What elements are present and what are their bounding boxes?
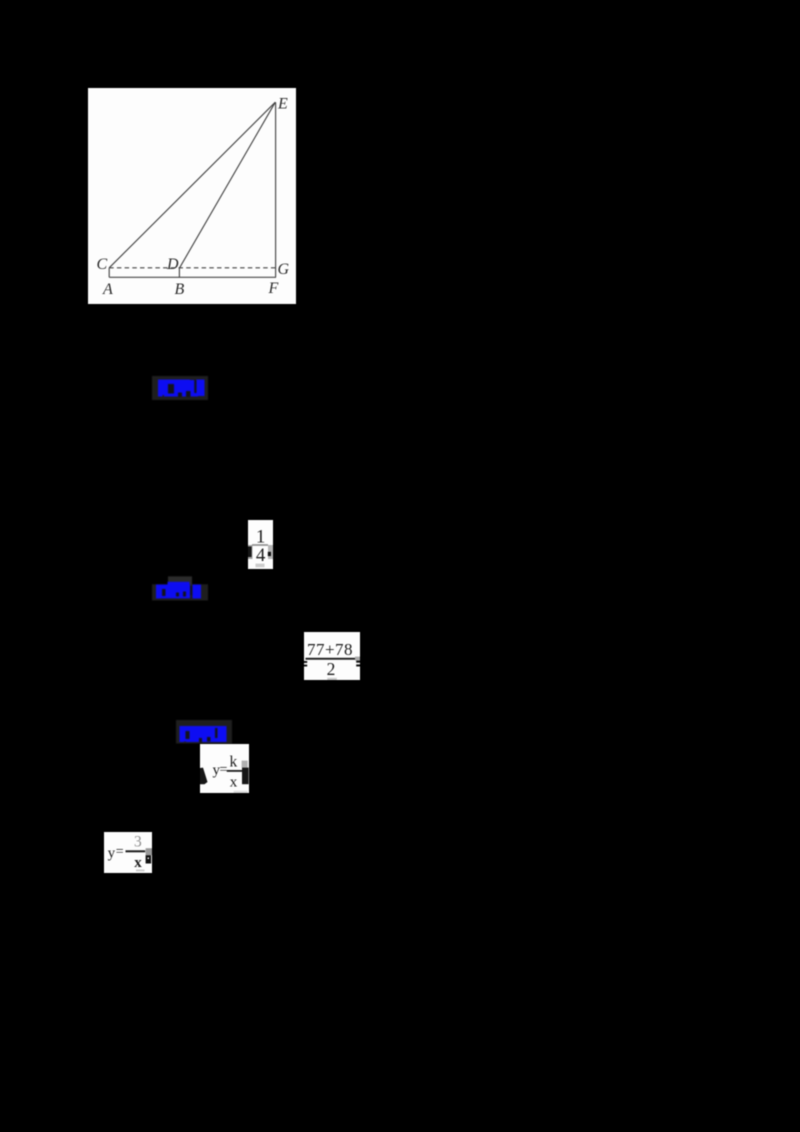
svg-text:C: C <box>97 256 108 273</box>
svg-text:B: B <box>175 281 185 298</box>
svg-text:y: y <box>107 845 115 861</box>
svg-text:4: 4 <box>255 545 265 566</box>
svg-text:F: F <box>268 280 279 297</box>
svg-text:E: E <box>277 96 288 113</box>
svg-text:D: D <box>166 256 179 273</box>
svg-text:=: = <box>115 844 123 859</box>
svg-text:x: x <box>229 774 237 790</box>
svg-text:k: k <box>229 753 237 770</box>
svg-text:A: A <box>102 281 113 298</box>
svg-text:x: x <box>134 855 142 871</box>
svg-text:G: G <box>278 261 290 278</box>
svg-text:=: = <box>219 762 227 777</box>
svg-text:2: 2 <box>327 659 336 679</box>
svg-text:77+78: 77+78 <box>307 640 353 659</box>
svg-text:3: 3 <box>134 834 142 851</box>
